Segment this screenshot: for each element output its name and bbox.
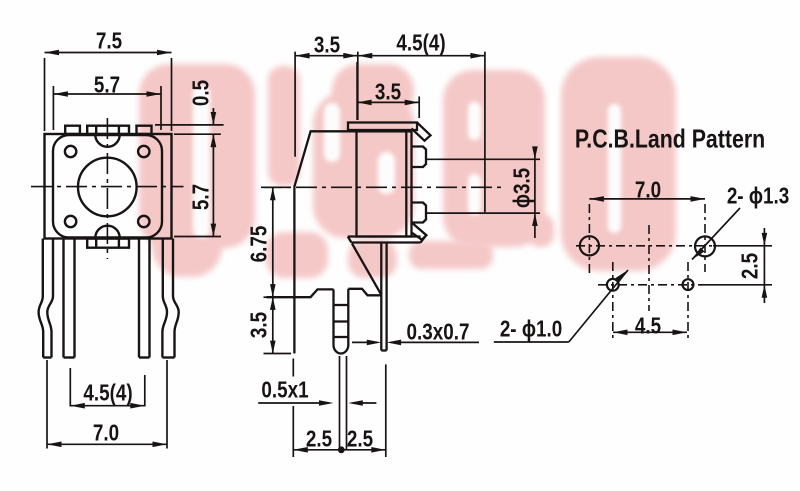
dim 2.5 2.5 bottom	[292, 359, 294, 377]
top tabs	[65, 126, 80, 134]
dimension text 3.5 vertical rotated	[246, 312, 273, 338]
rear lead slant	[352, 244, 381, 295]
watermark letter B	[443, 70, 545, 247]
arrowheads front view dims	[45, 50, 60, 56]
dimension text 5.7 top	[94, 71, 120, 98]
corner rivet circles	[65, 146, 76, 157]
dimension text 2.5 land rotated	[737, 252, 764, 278]
land pattern holes	[580, 236, 715, 290]
title P.C.B.Land Pattern	[574, 123, 764, 154]
side view centerline	[261, 186, 502, 188]
dimension text 4.5(4) bottom-left	[83, 379, 132, 406]
dimension text 0.5x1	[262, 376, 309, 403]
dimension text 4.5(4) side top	[396, 30, 445, 57]
dimension text 4.5 land	[635, 313, 661, 340]
dimension text 0.3x0.7	[407, 319, 470, 346]
bottom tab	[87, 239, 129, 248]
land pattern center dash lines	[576, 204, 713, 340]
dim 3.5 second	[356, 62, 358, 120]
leg outer-left (S-bend)	[39, 239, 44, 358]
bottom stem semicircle	[95, 226, 119, 238]
dimension text 3.5 side top	[313, 31, 339, 58]
dim 5.7 right	[212, 134, 214, 236]
bottom housing profile	[267, 289, 334, 297]
leader 2-phi1.3	[692, 208, 740, 260]
dim 7.5 top	[44, 58, 46, 131]
top stem semicircle	[95, 135, 119, 147]
watermark letter U	[139, 64, 255, 248]
dimension text 2.5 right	[347, 426, 373, 453]
front view rounded cover	[53, 135, 162, 238]
rear lead pin	[380, 243, 382, 351]
leg inner-left	[62, 239, 64, 358]
top bent tab	[412, 123, 431, 141]
front view outer frame	[45, 134, 172, 239]
dim 0.5 right refs	[155, 124, 224, 126]
bottom flange	[348, 236, 426, 242]
front lead top	[294, 131, 356, 187]
dim 0.3x0.7	[352, 341, 377, 343]
side view dimensions	[258, 52, 540, 457]
front lead vertical	[293, 187, 295, 353]
button circle	[78, 158, 137, 217]
leg outer-right (S-bend)	[162, 239, 167, 358]
dim 3.5 vertical	[272, 297, 274, 354]
dim 7.0	[589, 198, 705, 200]
body outline	[357, 131, 412, 236]
dimension text phi3.5 rotated	[508, 167, 535, 207]
label 2-phi1.3	[727, 183, 789, 210]
dimension text 7.5	[95, 27, 121, 54]
leader 2-phi1.0 underline	[494, 341, 569, 343]
dimension text 3.5 second	[375, 79, 401, 106]
support peg	[332, 289, 334, 345]
arrowheads side view dims	[295, 53, 310, 59]
dimension text 6.75 rotated	[246, 225, 273, 262]
dimension text 7.0 land	[635, 177, 661, 204]
dimension lines	[45, 53, 224, 449]
arrowheads land pattern	[589, 196, 604, 202]
dimension text 0.5 rotated	[188, 79, 215, 105]
ref line seating left	[264, 296, 267, 298]
stem peg bottom	[412, 203, 427, 223]
dim 3.5 / 4.5(4) top	[294, 52, 296, 157]
dim 4.5	[613, 331, 687, 333]
side view body	[267, 123, 431, 354]
dim 2.5 right	[713, 245, 772, 247]
dimension text 2.5 left	[306, 426, 332, 453]
stem peg top	[412, 147, 427, 168]
land pattern dims	[494, 199, 772, 342]
bottom bent tab	[412, 222, 427, 239]
watermark letter S	[332, 64, 414, 118]
watermark letter O	[561, 57, 676, 271]
dimension text 5.7 right rotated	[187, 184, 214, 210]
top flange	[348, 123, 417, 131]
front view centerlines	[31, 118, 184, 259]
dimension text 7.0 bottom-left	[93, 420, 119, 447]
dim 0.5x1	[258, 402, 329, 404]
dim 7.0 bottom-left	[46, 360, 48, 449]
label 2-phi1.0	[500, 316, 562, 343]
dim phi3.5 ext lines	[426, 158, 540, 160]
dim 5.7 top	[52, 86, 54, 130]
leg inner-right	[138, 239, 140, 358]
dim 4.5(4) bottom-left	[69, 368, 71, 407]
dim 6.75	[264, 186, 291, 188]
